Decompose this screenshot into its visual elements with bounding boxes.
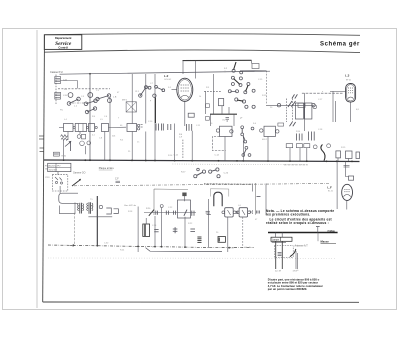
svg-text:réalisé selon le croquis ci-de: réalisé selon le croquis ci-dessous :: [266, 221, 329, 225]
inset: masse tag: [318, 233, 336, 244]
wire vertical x185 low: [184, 217, 186, 248]
wire below tube V3: [346, 200, 348, 209]
switch contact S1a: [148, 85, 165, 97]
wire drops from osc bus: [212, 74, 214, 114]
oscillator switch cluster S2: [224, 62, 255, 108]
bus junction dots: [96, 245, 230, 249]
svg-text:M.F.1: M.F.1: [122, 100, 128, 102]
dashed screens: [286, 99, 288, 123]
trimmer C1: [68, 93, 73, 98]
inset: curved wire: [290, 249, 296, 257]
wire loop under MF2: [212, 137, 225, 151]
frame tick marks: [39, 136, 44, 152]
inset: antenna bar: [268, 232, 338, 234]
double slash marks low: [290, 122, 296, 126]
svg-text:Département: Département: [55, 36, 72, 40]
svg-text:Antenne A.T: Antenne A.T: [295, 244, 309, 247]
trimmer pair: [80, 141, 91, 154]
wire vertical x155 low: [154, 216, 156, 248]
wire row links: [59, 127, 64, 129]
trimmer C2: [88, 93, 93, 98]
header bottom rule: [44, 50, 360, 53]
double slash marks: [292, 94, 298, 98]
diode arrow: [65, 141, 71, 151]
dash-dot chassis line: [74, 184, 330, 186]
wire dashdot to tube V2: [302, 92, 344, 94]
tiny box at frame: [54, 152, 67, 157]
frame side labels: [45, 166, 50, 180]
dashdot vertical x74.6: [74, 213, 76, 245]
svg-text:Masse: Masse: [321, 240, 330, 244]
cap marks between tubes: [236, 211, 237, 214]
wire vertical x138: [137, 207, 139, 253]
wire hook to antenna coupler: [251, 60, 253, 63]
rear panel box: [154, 189, 188, 215]
vertical x229: [227, 217, 229, 252]
inset: dashed screen box: [274, 246, 293, 258]
cap gang CV1 diagonal: [84, 99, 97, 106]
resistor R1 diagonal: [136, 86, 148, 98]
coil block row: box A5 caps: [156, 124, 192, 131]
svg-text:EF 41: EF 41: [346, 80, 351, 82]
junction circle: [99, 205, 102, 208]
electrolytic C24: [143, 218, 150, 236]
resistor pair right of MF: [297, 132, 315, 141]
osc feed comps: [206, 104, 254, 130]
output transformer TR2: [87, 202, 94, 213]
inset: wires right pair: [295, 251, 297, 269]
wire dashdot gang: [72, 102, 90, 104]
inset: table bottom rail: [272, 242, 286, 244]
svg-text:mini GO: mini GO: [49, 170, 57, 172]
wire mid link: [58, 88, 110, 90]
inset: lamp table: [271, 237, 292, 241]
wire vertical x132: [131, 74, 133, 124]
title block text: [55, 36, 72, 49]
band table: [48, 163, 71, 171]
PU input shield dashed: [55, 75, 57, 105]
wire y216.8: [88, 216, 112, 218]
wire verticals into mid bus: [289, 148, 291, 161]
wire verticals under table: [57, 172, 59, 175]
wire verticals to bus from row: [67, 132, 69, 141]
wire vertical x155: [154, 74, 156, 160]
svg-text:par un point commun 800/820.: par un point commun 800/820.: [268, 287, 308, 291]
wire into tube V2: [330, 90, 346, 92]
micro value labels: [60, 71, 360, 252]
switch cluster S3: [181, 168, 229, 178]
electrolytic box small: [218, 237, 225, 243]
svg-text:50k: 50k: [112, 136, 115, 138]
wire hook x304: [304, 93, 306, 131]
Nota paragraph: [266, 209, 334, 225]
wire link y91: [204, 90, 222, 92]
wire x345.5 vertical: [346, 162, 349, 177]
mid bus junctions: [63, 159, 353, 162]
svg-text:L.2: L.2: [164, 74, 169, 78]
panel right edge: [255, 183, 257, 215]
svg-text:les premières exécutions.: les premières exécutions.: [266, 212, 310, 216]
coil block row: box A2: [75, 124, 86, 132]
inset: mast tick: [316, 227, 320, 233]
inset: cable tag: [328, 229, 336, 233]
vertical x252.7: [252, 184, 254, 192]
wire drop 195: [194, 61, 196, 79]
PU socket coil 2: [55, 92, 67, 99]
wire x337 long vertical: [336, 162, 338, 210]
svg-text:C.F: C.F: [115, 179, 119, 181]
inset: twin verticals: [275, 241, 277, 269]
switch contact column S4: [241, 126, 251, 157]
coupling box above LF tube: [349, 176, 354, 180]
wire grid to tube: [172, 89, 177, 91]
resistor R20 diag: [146, 208, 154, 216]
wire L from coil 1: [61, 81, 78, 89]
header top rule: [44, 34, 360, 36]
wire tube V2 drops: [332, 91, 334, 122]
verticals x207 x213: [208, 199, 210, 248]
comp box x348: [346, 151, 353, 159]
svg-text:C.B: C.B: [63, 95, 67, 97]
shielded line pair: [154, 98, 156, 124]
svg-text:EL 41: EL 41: [328, 191, 333, 193]
cap C25: [154, 230, 158, 232]
svg-text:1k: 1k: [199, 96, 201, 98]
svg-text:Vers H.P. du: Vers H.P. du: [124, 204, 137, 207]
tube V3 envelope: [342, 184, 353, 200]
tube V1 envelope: [177, 78, 193, 101]
coil block row: box A3: [89, 124, 95, 132]
wire tube cathode down: [184, 101, 186, 126]
svg-text:L.3: L.3: [345, 74, 350, 78]
osc coil box: [219, 99, 224, 106]
dashed switch enclosure: [52, 175, 68, 191]
contacts in enclosure: [55, 177, 63, 184]
wire osc bus: [210, 113, 237, 115]
schematic frame left: [43, 35, 45, 302]
svg-text:Gamme: Gamme: [49, 166, 58, 168]
inset: feeder wires: [275, 233, 277, 238]
coil L2 diagonal: [96, 94, 117, 103]
wire y70.6 right: [240, 70, 266, 72]
svg-text:L.F: L.F: [327, 186, 332, 190]
coil block row: box A1: [64, 124, 74, 132]
IF transformer box T1: [122, 100, 136, 113]
coil box row B1: [127, 124, 137, 132]
cap C26: [173, 227, 178, 233]
comp circles right of B1: [137, 124, 142, 130]
dotted link under bus: [173, 163, 309, 166]
switch arm arrow: [72, 179, 81, 186]
junction circle2: [160, 205, 163, 208]
wire vertical x110: [109, 97, 111, 160]
wire vertical bus x90: [89, 74, 91, 160]
junction circles in row: [73, 126, 75, 128]
svg-text:50 mF: 50 mF: [245, 247, 252, 249]
svg-text:800 mF: 800 mF: [227, 248, 235, 250]
IF transformer T2 boxes: [295, 103, 316, 119]
comp circle+box: [77, 134, 85, 139]
coil block row: box A4: [102, 124, 109, 132]
wire vertical x161.6: [161, 208, 163, 248]
bottom wire corner to right: [146, 248, 223, 252]
caps row: [166, 211, 194, 216]
inset: cap marks: [278, 252, 282, 255]
comp marks x192: [190, 229, 195, 232]
wire drop 183: [182, 61, 184, 74]
S-curve wire: [321, 145, 325, 161]
svg-text:17.5ºº: 17.5ºº: [293, 270, 299, 273]
wire HT line: [183, 59, 252, 61]
mid bus: [44, 160, 360, 162]
title block box: [44, 35, 82, 50]
phono shield box: [210, 189, 229, 197]
svg-text:L.B: L.B: [113, 97, 117, 99]
audio: open box: [60, 203, 76, 214]
svg-text:ECH 42: ECH 42: [165, 79, 172, 81]
driver tube box 2: [236, 208, 250, 217]
svg-text:Câble: Câble: [328, 229, 336, 233]
schematic frame bottom: [43, 301, 359, 303]
antenna coupler box: [252, 64, 259, 69]
svg-text:1n: 1n: [137, 142, 139, 144]
driver tube box 1: [222, 208, 236, 217]
wire band switch row: [266, 101, 315, 107]
wire audio row: [144, 212, 196, 214]
dashed screen x183: [182, 140, 184, 160]
resistor zigzag R2: [61, 135, 68, 138]
svg-text:(-(: (-(: [224, 71, 226, 73]
PU socket coil 1: [55, 77, 67, 84]
svg-text:Caisse P.U: Caisse P.U: [50, 70, 63, 74]
vertical x266 with T top: [257, 184, 267, 216]
padder C5: [188, 113, 194, 117]
svg-text:Plaque arrière: Plaque arrière: [99, 167, 115, 170]
resistor zigzag R3: [61, 138, 68, 140]
svg-text:PO: PO: [57, 166, 60, 168]
wire top bus: [60, 71, 271, 74]
wire dashdot right stub: [284, 164, 308, 166]
dashed vertical x243: [242, 217, 244, 248]
svg-text:12. 37: 12. 37: [275, 271, 282, 273]
svg-text:Osc: Osc: [222, 120, 226, 122]
MF2 box right: [260, 123, 284, 137]
wire vertical x146: [145, 74, 147, 124]
hatched chassis strip: [204, 183, 252, 186]
audio: rounded loop wire: [59, 193, 78, 203]
faint dotted line y258: [48, 257, 335, 259]
svg-text:Contrôl: Contrôl: [58, 45, 68, 49]
marks right of tubes: [250, 210, 260, 213]
tube V2 envelope: [346, 84, 356, 103]
arrow on bus: [70, 244, 75, 246]
stack bars (grid leak): [197, 237, 201, 242]
coil L1 diagonal: [67, 97, 80, 107]
svg-text:Schéma gér: Schéma gér: [320, 42, 360, 48]
svg-text:Gamme GO: Gamme GO: [73, 173, 86, 175]
comp dashes right: [344, 165, 350, 167]
bottom chassis dash bus: [48, 245, 254, 248]
U-hook wire audio: [214, 192, 222, 206]
small comp boxes under: [286, 144, 293, 148]
speaker bracket comps: [106, 208, 111, 214]
output transformer TR1: [78, 203, 84, 214]
tube socket box: [178, 193, 191, 219]
paper fold edge: [36, 30, 38, 308]
comp box x337: [336, 151, 341, 158]
cap C21: [156, 211, 158, 215]
bottom paragraph: [268, 277, 323, 291]
thick vertical feed: [96, 196, 98, 246]
coil L2b diagonal: [85, 107, 96, 114]
MF2 box left: [216, 126, 233, 136]
